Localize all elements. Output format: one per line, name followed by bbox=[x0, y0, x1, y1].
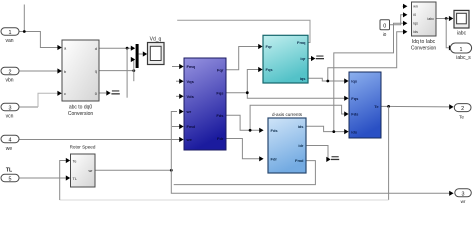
wire Fds flux to d-axis and torque bbox=[226, 105, 345, 130]
wire Fmd stub into flux bbox=[172, 126, 180, 128]
svg-text:iqs: iqs bbox=[300, 76, 307, 81]
node q junction bbox=[132, 69, 135, 72]
inport 5 TL bbox=[1, 168, 19, 183]
arrowheads bbox=[57, 4, 453, 196]
svg-text:Fds: Fds bbox=[271, 128, 279, 133]
wire ids d-axis to torque and idq conversion bbox=[306, 23, 404, 131]
svg-text:2: 2 bbox=[461, 106, 464, 112]
wire Fdr flux to d-axis bbox=[226, 139, 260, 159]
svg-text:d-axis currents: d-axis currents bbox=[272, 112, 303, 117]
svg-text:Vqs: Vqs bbox=[187, 79, 195, 84]
svg-text:Te: Te bbox=[73, 159, 77, 163]
wire Te feedback up to rotor speed bbox=[60, 161, 67, 201]
wire vqs riser bbox=[133, 71, 135, 82]
block flux linkages bbox=[184, 58, 226, 150]
node Fds junction bbox=[249, 129, 252, 132]
wire q out bbox=[99, 70, 134, 72]
svg-text:idr: idr bbox=[298, 143, 304, 148]
svg-text:Fqs: Fqs bbox=[266, 67, 274, 72]
svg-text:Fdr: Fdr bbox=[271, 157, 278, 162]
svg-text:Fqs: Fqs bbox=[216, 90, 224, 95]
wire vcn to input c bbox=[19, 93, 58, 107]
outport 3 wr bbox=[455, 189, 472, 204]
wire iqs q-axis to torque and idq conversion bbox=[308, 32, 404, 81]
wire wr to outport 3 bbox=[171, 170, 450, 193]
svg-text:wr: wr bbox=[461, 199, 466, 203]
scope iabc bbox=[454, 10, 469, 36]
svg-text:3: 3 bbox=[462, 191, 465, 197]
wire Te feedback down bbox=[388, 106, 390, 200]
svg-text:3: 3 bbox=[9, 106, 12, 112]
outport 2 Te bbox=[454, 104, 471, 120]
wire we to flux input bbox=[19, 139, 180, 141]
node d junction bbox=[126, 47, 129, 50]
svg-text:iqs: iqs bbox=[351, 79, 358, 84]
node iabc junction bbox=[445, 17, 448, 20]
svg-text:wn: wn bbox=[413, 5, 418, 9]
wire van to abc block input a bbox=[19, 32, 58, 48]
svg-text:i0: i0 bbox=[383, 32, 387, 37]
svg-text:we: we bbox=[186, 137, 193, 142]
scope Vd_q bbox=[148, 37, 165, 65]
svg-text:1: 1 bbox=[9, 30, 12, 36]
wire wr riser to flux bbox=[171, 112, 177, 171]
block abc to dq0 conversion bbox=[62, 40, 99, 117]
wire idr to terminator bbox=[306, 146, 328, 160]
wire wn stub bbox=[403, 5, 405, 7]
svg-text:iqr: iqr bbox=[300, 56, 306, 61]
svg-text:Idq to Iabc: Idq to Iabc bbox=[412, 39, 436, 45]
outport 1 iabc_s bbox=[450, 43, 471, 61]
wire vbn to input b bbox=[19, 70, 58, 72]
terminator after 0 output bbox=[111, 90, 119, 94]
svg-text:q: q bbox=[95, 68, 97, 73]
wire Te feedback bottom bbox=[60, 199, 389, 201]
inport 4 we bbox=[1, 135, 19, 152]
wire iabc out to scope bbox=[436, 18, 450, 20]
wire vqs stub into flux bbox=[176, 80, 180, 82]
node wr junction bbox=[170, 169, 173, 172]
svg-text:vcn: vcn bbox=[6, 114, 14, 120]
block q-axis currents bbox=[263, 35, 308, 83]
wire vds stub into flux bbox=[176, 95, 180, 97]
svg-text:Te: Te bbox=[374, 104, 379, 109]
wire Fqr flux to q-axis bbox=[226, 47, 259, 70]
block d-axis currents bbox=[268, 112, 306, 173]
wire q to mux riser bbox=[131, 60, 134, 71]
svg-text:Fqs: Fqs bbox=[351, 96, 359, 101]
inport 2 vbn bbox=[1, 67, 19, 83]
inport 3 vcn bbox=[1, 103, 19, 119]
svg-text:TL: TL bbox=[6, 168, 13, 174]
svg-text:Fmd: Fmd bbox=[187, 124, 196, 129]
svg-text:Rotor Speed: Rotor Speed bbox=[70, 145, 96, 150]
svg-text:4: 4 bbox=[9, 138, 12, 144]
wire van branch up bbox=[23, 5, 25, 32]
node Te junction bbox=[387, 105, 390, 108]
wire Fmq stub into flux bbox=[172, 66, 180, 68]
svg-text:Fdr: Fdr bbox=[217, 136, 224, 141]
svg-text:iabc: iabc bbox=[427, 17, 434, 21]
svg-text:ids: ids bbox=[298, 124, 305, 129]
block rotor speed bbox=[70, 145, 96, 188]
block Idq to Iabc conversion bbox=[411, 2, 437, 52]
svg-text:vbn: vbn bbox=[5, 78, 13, 84]
svg-text:Fmq: Fmq bbox=[187, 64, 196, 69]
svg-text:5: 5 bbox=[9, 177, 12, 183]
svg-text:Conversion: Conversion bbox=[411, 46, 437, 52]
svg-text:Te: Te bbox=[459, 114, 464, 119]
node ids junction bbox=[332, 130, 335, 133]
svg-text:Fmd: Fmd bbox=[295, 158, 304, 163]
wire iabc to outport bbox=[446, 19, 450, 48]
svg-text:ids: ids bbox=[351, 129, 358, 134]
svg-text:2: 2 bbox=[9, 70, 12, 76]
svg-text:Fmq: Fmq bbox=[297, 40, 306, 45]
svg-text:d: d bbox=[95, 46, 97, 51]
svg-text:Vds: Vds bbox=[187, 94, 195, 99]
svg-text:iabc: iabc bbox=[457, 31, 467, 37]
svg-text:Conversion: Conversion bbox=[68, 111, 94, 117]
svg-text:wr: wr bbox=[186, 109, 192, 114]
svg-text:iqs: iqs bbox=[413, 22, 418, 26]
wire iqr to terminator bbox=[308, 58, 311, 60]
svg-text:ids: ids bbox=[413, 30, 418, 34]
wire 0 out to terminator bbox=[99, 92, 106, 94]
svg-text:Fds: Fds bbox=[351, 112, 359, 117]
terminator iqr bbox=[316, 56, 324, 60]
svg-text:i0: i0 bbox=[413, 13, 416, 17]
inport 1 van bbox=[1, 28, 19, 44]
wire Fmq feedback top bbox=[177, 20, 310, 42]
svg-text:Fqr: Fqr bbox=[266, 44, 273, 49]
svg-text:abc to dq0: abc to dq0 bbox=[69, 105, 93, 111]
wire vds riser bbox=[126, 48, 128, 97]
node iqs junction bbox=[326, 80, 329, 83]
svg-text:c: c bbox=[64, 91, 66, 96]
svg-text:TL: TL bbox=[73, 177, 77, 181]
wire d out to mux bbox=[99, 47, 131, 49]
svg-text:we: we bbox=[6, 146, 13, 152]
wire mux to scope bbox=[139, 53, 144, 55]
wire Fmd feedback bbox=[174, 161, 316, 185]
node van junction bbox=[23, 30, 26, 33]
wire TL to rotor speed bbox=[19, 177, 67, 179]
svg-text:iabc_s: iabc_s bbox=[456, 55, 471, 61]
block torque Te bbox=[349, 72, 381, 138]
svg-text:van: van bbox=[5, 38, 13, 44]
wire wr from rotor speed bbox=[95, 169, 171, 171]
constant i0 bbox=[380, 20, 390, 37]
mux bbox=[136, 44, 139, 68]
wire Te to outport bbox=[381, 105, 450, 108]
svg-text:Fds: Fds bbox=[216, 113, 224, 118]
svg-text:1: 1 bbox=[460, 47, 463, 53]
node Fqs junction bbox=[246, 91, 249, 94]
terminator idr bbox=[331, 156, 339, 160]
svg-text:Fqr: Fqr bbox=[217, 68, 224, 73]
svg-text:0: 0 bbox=[383, 24, 386, 30]
wire Fqs flux to q-axis and torque bbox=[226, 70, 345, 99]
svg-text:Vd_q: Vd_q bbox=[150, 37, 162, 43]
wire i0 constant to conversion bbox=[390, 15, 405, 25]
